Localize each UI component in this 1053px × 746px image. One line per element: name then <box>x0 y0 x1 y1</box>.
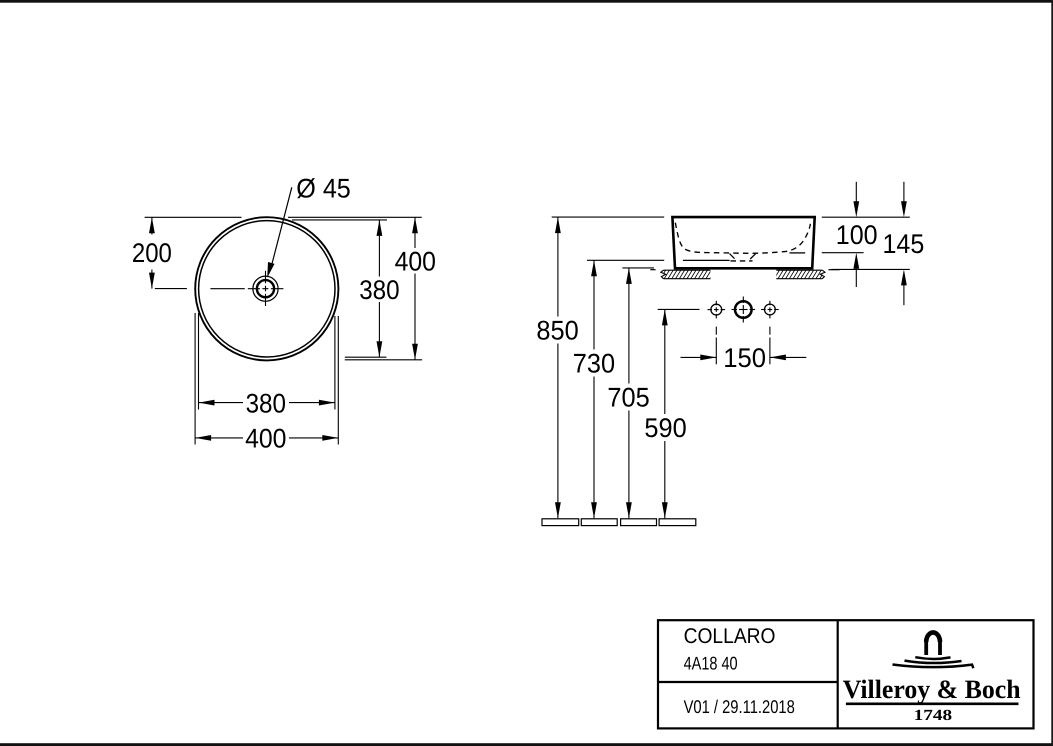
dimension 400 vertical arrows <box>412 217 418 233</box>
extension line top-right inner tangent <box>292 219 387 221</box>
extension verticals below circle <box>195 313 338 445</box>
drain crosshair vertical centerline <box>265 271 267 306</box>
drain hole outer thin circle <box>253 276 278 301</box>
page top border bar <box>0 0 1053 3</box>
bowl hidden dashed profile <box>675 223 810 254</box>
svg-text:400: 400 <box>395 246 436 276</box>
leader line for drain label <box>271 187 292 269</box>
interior solid line left <box>683 259 730 261</box>
svg-text:380: 380 <box>359 275 399 305</box>
dimension 850 line <box>557 217 559 518</box>
drain recess right connector <box>750 254 755 259</box>
title block horizontal divider <box>658 681 838 683</box>
dimension 400 horizontal line <box>195 437 338 439</box>
svg-text:590: 590 <box>644 413 686 443</box>
drain crosshair horizontal centerline <box>248 288 284 290</box>
dimension 150 arrows <box>700 355 716 361</box>
dimension 730 arrows <box>591 260 597 276</box>
dimension 850 arrows <box>555 217 561 233</box>
extension line 705 <box>622 267 654 269</box>
dimension 400 horizontal arrows <box>195 435 211 441</box>
svg-text:1748: 1748 <box>914 707 953 724</box>
faucet hole right <box>765 304 776 315</box>
logo ripple 3 <box>893 665 974 669</box>
svg-text:400: 400 <box>245 424 286 454</box>
extension verticals for 150 <box>716 338 770 365</box>
basin outer rim circle <box>195 217 338 360</box>
svg-text:850: 850 <box>536 316 578 346</box>
logo ripple 1 <box>915 657 950 659</box>
drain recess left connector <box>730 254 735 259</box>
dimension 145 <box>903 182 905 305</box>
dimension 145 arrows <box>901 201 907 217</box>
dimension 380 horizontal line <box>199 402 335 404</box>
svg-text:200: 200 <box>132 238 172 268</box>
dimension 705 arrows <box>626 268 632 284</box>
dimension 380 horizontal arrows <box>199 400 215 406</box>
extension bottom outer tangent <box>345 359 422 361</box>
dimension 705 line <box>628 268 630 518</box>
basin inner rim circle <box>199 221 335 357</box>
dimension 100 <box>855 182 857 287</box>
page right border line <box>1051 0 1053 746</box>
leader arrowhead <box>267 262 274 278</box>
basin profile outline <box>672 217 814 268</box>
dimension 400 vertical line <box>414 217 416 359</box>
svg-text:145: 145 <box>883 229 925 259</box>
drain recess dashed bottom <box>731 260 753 262</box>
extension line 730 <box>587 259 664 261</box>
dimension 150 tails <box>681 356 807 358</box>
extension line right top <box>822 216 910 218</box>
dimension 200 line <box>151 217 153 288</box>
svg-text:730: 730 <box>573 349 615 379</box>
title block vertical divider <box>837 620 839 728</box>
extension line 590 <box>658 308 700 310</box>
svg-text:100: 100 <box>836 220 878 250</box>
drain hole thick circle <box>257 280 274 297</box>
logo ripple 2 <box>905 661 962 663</box>
logo arch symbol legs <box>926 641 940 655</box>
countertop surface dash left <box>650 269 655 271</box>
dimension 730 line <box>593 260 595 518</box>
logo underline <box>846 702 1019 705</box>
svg-text:COLLARO: COLLARO <box>684 624 776 648</box>
extension line right mid (100) <box>822 252 864 254</box>
page bottom border bar <box>0 743 1053 746</box>
circle horizontal centerline left dash <box>210 288 244 290</box>
faucet hole left <box>711 304 722 315</box>
faucet hole crosshairs <box>708 297 779 323</box>
extension line center-left <box>155 288 187 290</box>
extension line right bottom (145) <box>832 268 910 270</box>
interior solid line right <box>790 252 806 254</box>
extension line top-right outer tangent <box>288 216 422 218</box>
svg-text:Villeroy & Boch: Villeroy & Boch <box>843 674 1021 704</box>
svg-text:380: 380 <box>246 388 286 418</box>
logo arch symbol crown <box>926 632 940 642</box>
countertop left pad (hatched) <box>630 270 749 279</box>
extension line 850 (rim level) <box>552 216 665 218</box>
dimension 590 line <box>664 309 666 518</box>
countertop right pad (hatched) <box>740 270 859 279</box>
svg-text:150: 150 <box>723 343 766 373</box>
faucet hole middle <box>735 301 752 318</box>
countertop surface dash right <box>828 269 839 271</box>
svg-text:Ø 45: Ø 45 <box>296 174 351 204</box>
dimension 200 arrows <box>149 217 155 233</box>
dimension 590 arrows <box>662 309 668 325</box>
extension bottom inner tangent <box>345 356 387 358</box>
title block outer frame <box>658 620 1034 728</box>
dimension 100 arrows <box>853 201 859 217</box>
dimension 380 vertical line <box>378 220 380 357</box>
svg-text:705: 705 <box>607 382 649 412</box>
svg-text:V01 / 29.11.2018: V01 / 29.11.2018 <box>684 696 795 717</box>
dashes below holes <box>716 327 770 335</box>
extension line top-left (outer tangent) <box>145 216 242 218</box>
floor marker boxes <box>542 519 696 526</box>
dimension 380 vertical arrows <box>377 220 383 236</box>
svg-text:4A18 40: 4A18 40 <box>684 652 738 673</box>
